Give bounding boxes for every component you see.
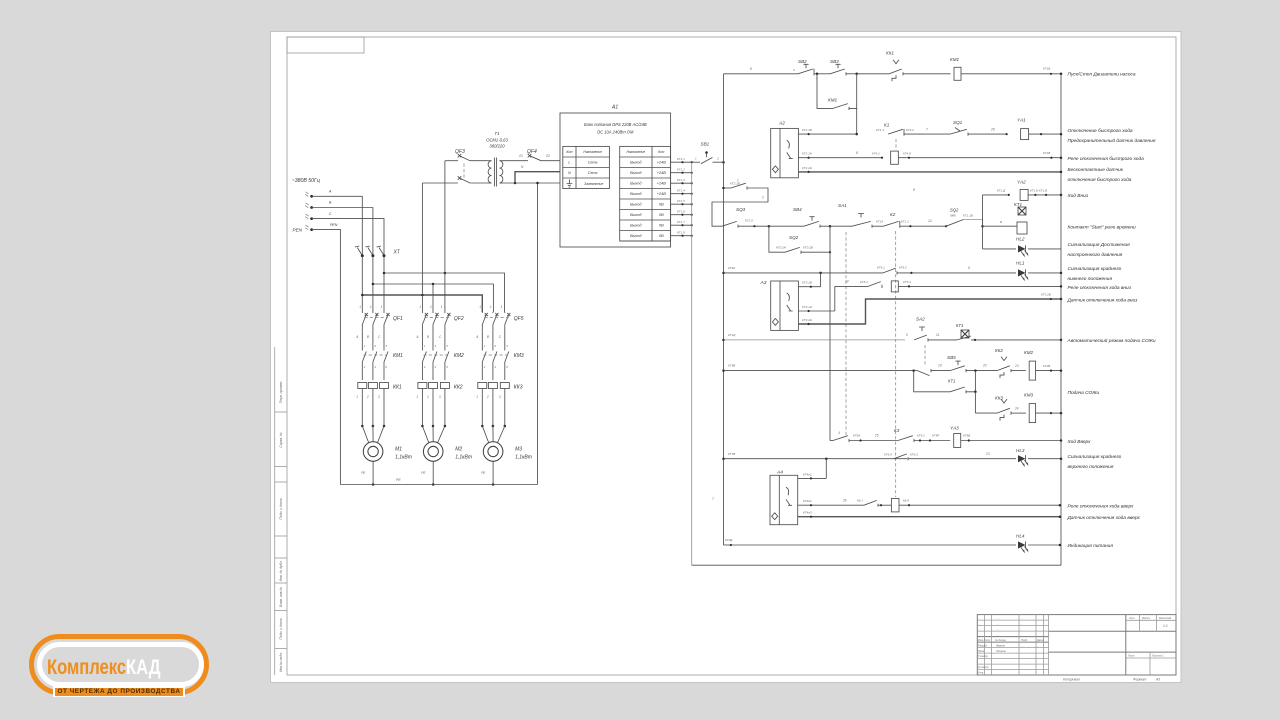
svg-text:YА2: YА2 (1017, 180, 1026, 185)
svg-text:QF1: QF1 (393, 316, 403, 322)
svg-text:1: 1 (490, 305, 492, 309)
svg-text:1: 1 (381, 305, 383, 309)
+24V bus left (723, 74, 725, 545)
svg-text:1,1кВт: 1,1кВт (455, 455, 472, 461)
svg-text:КТ1.3: КТ1.3 (677, 178, 685, 182)
svg-text:НL2: НL2 (1016, 237, 1025, 242)
svg-text:Подп. и дата: Подп. и дата (279, 498, 283, 519)
svg-text:КТ6.1: КТ6.1 (877, 266, 885, 270)
svg-text:Взам. инв.№: Взам. инв.№ (279, 587, 283, 607)
svg-text:КК1: КК1 (886, 51, 894, 56)
svg-text:QF4: QF4 (527, 149, 537, 155)
svg-text:А3: А3 (760, 280, 767, 286)
svg-text:К6.4: К6.4 (903, 499, 909, 503)
svg-text:Подача СОЖи: Подача СОЖи (1068, 390, 1100, 396)
svg-text:Разраб.: Разраб. (978, 643, 988, 647)
svg-text:А: А (415, 335, 418, 339)
svg-text:Н.контр.: Н.контр. (978, 665, 989, 669)
motor junction dots М3 (481, 425, 506, 443)
svg-text:20: 20 (982, 364, 987, 368)
svg-text:КТ5Р: КТ5Р (932, 434, 939, 438)
svg-text:КТ2.1В: КТ2.1В (802, 128, 812, 132)
svg-text:23: 23 (1014, 364, 1019, 368)
contactor contacts КМ3 (482, 344, 524, 380)
svg-text:КТ1.7: КТ1.7 (677, 220, 685, 224)
svg-text:1: 1 (430, 305, 432, 309)
svg-text:Сеть: Сеть (588, 171, 598, 175)
A1 input table (563, 146, 610, 188)
svg-text:КТ4а2: КТ4а2 (803, 499, 812, 503)
svg-text:SВ4: SВ4 (793, 207, 802, 212)
svg-text:КТ7В: КТ7В (728, 452, 735, 456)
wire labels КК1-motor (356, 395, 380, 399)
svg-text:Л1: Л1 (518, 154, 523, 158)
svg-text:КТ4а2: КТ4а2 (803, 472, 812, 476)
svg-text:КТ6.9: КТ6.9 (884, 453, 892, 457)
svg-text:верхнего положения: верхнего положения (1068, 465, 1114, 470)
wire riser to QF3 pole1 (444, 161, 446, 273)
wire rung power indication (724, 538, 1017, 546)
motor junction dots М1 (361, 425, 385, 443)
logo KompleksKAD inner white ring (37, 642, 204, 687)
wire feed hod vverh (829, 252, 831, 440)
limit switch SQ3 (722, 207, 770, 228)
sheet background (271, 32, 1182, 683)
svg-text:QF3: QF3 (455, 149, 465, 155)
svg-text:~380В 50Гц: ~380В 50Гц (292, 178, 320, 184)
vertical feed timer group (982, 195, 984, 249)
thermal contact KK2 (995, 348, 1026, 378)
svg-text:DC 10А 240Вт ОМ: DC 10А 240Вт ОМ (597, 130, 634, 135)
wire number labels above QF row (359, 305, 502, 309)
wire rung signal lower position (722, 266, 883, 274)
wire rung hod vniz (913, 188, 1010, 196)
svg-text:4: 4 (838, 431, 840, 435)
motor М1 PE wire (361, 461, 374, 485)
wire rung coolant (722, 364, 915, 372)
svg-text:КК2: КК2 (454, 385, 463, 391)
svg-text:КТ5.2: КТ5.2 (917, 434, 925, 438)
terminal block XT (355, 246, 401, 257)
svg-text:КМ1: КМ1 (393, 353, 403, 359)
svg-text:Утв.: Утв. (978, 670, 984, 674)
wire L1 input (312, 196, 363, 255)
svg-text:0В: 0В (659, 203, 664, 207)
title block left grid (977, 615, 1048, 675)
wire A4 middle output (712, 497, 864, 506)
svg-text:М2: М2 (455, 447, 462, 453)
svg-text:24: 24 (1014, 407, 1019, 411)
switch SB1 (692, 142, 725, 164)
label rung3 (1068, 156, 1145, 162)
wire A2 top output (798, 108, 858, 135)
contactor aux contact KM2a (914, 345, 950, 376)
contactor contacts КМ1 (362, 344, 403, 380)
svg-text:Подп. и дата: Подп. и дата (279, 618, 283, 639)
svg-text:КТ1.Е КТ1.В: КТ1.Е КТ1.В (1030, 189, 1047, 193)
svg-text:Выход: Выход (630, 213, 641, 217)
contactor coil KM3 (1024, 393, 1062, 423)
svg-text:2: 2 (761, 196, 764, 200)
svg-text:Заземление: Заземление (584, 182, 603, 186)
svg-text:КТ0.2В: КТ0.2В (803, 246, 813, 250)
thermal contact KK1 (857, 51, 951, 82)
label rung18 (1068, 543, 1114, 549)
svg-text:Датчик отключения хода вниз: Датчик отключения хода вниз (1067, 298, 1139, 304)
svg-text:380/220: 380/220 (489, 144, 505, 149)
svg-text:КТ1: КТ1 (1014, 202, 1023, 207)
svg-text:25: 25 (874, 434, 879, 438)
svg-text:1: 1 (737, 179, 739, 183)
indicator HL1 (1016, 261, 1062, 280)
svg-text:Ход Вверх: Ход Вверх (1067, 439, 1092, 445)
svg-text:НL4: НL4 (1016, 534, 1025, 539)
wire rung auto mode (722, 333, 905, 341)
title block revision marks (979, 617, 1023, 637)
svg-text:SQ2: SQ2 (789, 235, 799, 240)
sensor block A3 label (760, 280, 767, 286)
svg-text:3: 3 (378, 395, 380, 399)
motor М3 (483, 442, 532, 462)
svg-text:НL1: НL1 (1016, 261, 1025, 266)
svg-text:В: В (1000, 220, 1002, 224)
svg-text:7: 7 (926, 128, 928, 132)
svg-text:КТ1.2: КТ1.2 (677, 168, 685, 172)
logo ribbon (55, 688, 184, 696)
logo KompleksKAD outer ring (29, 634, 209, 695)
label rung10 (1067, 298, 1139, 304)
logo KompleksKAD text (47, 655, 161, 680)
wire riser to QF3 pole2 (421, 183, 423, 295)
svg-text:К3: К3 (894, 428, 900, 433)
sensor block A3 (771, 281, 799, 330)
input terminals L1 L2 L3 PEN (305, 192, 313, 231)
time relay coil KT1 (983, 202, 1028, 234)
label rung8 (1068, 265, 1122, 282)
svg-text:КТ1Д: КТ1Д (728, 333, 736, 337)
title block header texts (978, 638, 1044, 674)
svg-text:М3: М3 (515, 447, 522, 453)
svg-text:КТ4.2: КТ4.2 (906, 128, 914, 132)
svg-text:КТ1.8: КТ1.8 (677, 231, 685, 235)
wire labels QF5-КМ3 (475, 335, 502, 339)
svg-text:7: 7 (712, 497, 714, 501)
svg-text:М1: М1 (395, 447, 402, 453)
svg-text:1: 1 (501, 305, 503, 309)
svg-text:SВ1: SВ1 (701, 142, 710, 147)
wire labels QF2-КМ2 (415, 335, 442, 339)
label rung5 (1067, 193, 1089, 199)
svg-text:Листов 1: Листов 1 (1151, 654, 1164, 658)
svg-text:КТ6В: КТ6В (963, 434, 970, 438)
solenoid coil YA2 (1017, 180, 1062, 201)
button SB3 start (814, 59, 858, 75)
svg-text:Пуск/Стоп Двигатели насоса: Пуск/Стоп Двигатели насоса (1068, 72, 1136, 78)
title block footer texts (1063, 678, 1160, 682)
svg-text:1,1кВт: 1,1кВт (515, 455, 532, 461)
svg-text:Инв.№ подл.: Инв.№ подл. (279, 652, 283, 672)
svg-text:КТ9В: КТ9В (728, 364, 735, 368)
relay coil K1 (891, 151, 1063, 164)
svg-text:3: 3 (439, 395, 441, 399)
svg-text:2: 2 (423, 365, 426, 369)
svg-text:26: 26 (990, 128, 995, 132)
button SB4 (769, 207, 831, 228)
svg-text:26: 26 (842, 499, 847, 503)
svg-text:Лист: Лист (1127, 654, 1136, 658)
A1 output wires (671, 157, 693, 237)
svg-text:Кон: Кон (566, 150, 572, 154)
label rung17 (1067, 515, 1141, 521)
svg-text:Формат: Формат (1133, 678, 1147, 682)
svg-text:Выход: Выход (630, 171, 641, 175)
power supply A1 box (560, 113, 671, 247)
svg-text:2: 2 (483, 365, 486, 369)
limit switch SQ4 (946, 208, 984, 228)
circuit breaker QF4 (503, 149, 560, 161)
svg-text:КТ1В: КТ1В (1043, 67, 1050, 71)
motor М2 (423, 442, 472, 462)
wire A3 middle output (798, 286, 834, 312)
svg-text:Копировал: Копировал (1063, 678, 1080, 682)
svg-text:КК2: КК2 (995, 348, 1003, 353)
svg-text:YА1: YА1 (1017, 118, 1026, 123)
svg-text:КТ2.2Н: КТ2.2Н (802, 166, 813, 170)
label rung7 (1068, 242, 1131, 258)
svg-text:С: С (329, 212, 332, 216)
indicator HL2 (983, 237, 1062, 256)
svg-text:КК3: КК3 (995, 396, 1003, 401)
svg-text:Изм Лист: Изм Лист (978, 638, 991, 642)
svg-text:КМ1: КМ1 (950, 57, 960, 62)
svg-text:1: 1 (356, 395, 358, 399)
solenoid coil YA3 (950, 426, 1062, 448)
svg-text:КТ0.2Н: КТ0.2Н (776, 246, 787, 250)
svg-text:SQ1: SQ1 (953, 120, 963, 125)
svg-text:КТ3.1Н: КТ3.1Н (802, 305, 813, 309)
wire phase verticals below XT (362, 256, 384, 312)
svg-text:1: 1 (479, 305, 481, 309)
svg-text:Реле отключения хода вниз: Реле отключения хода вниз (1068, 285, 1132, 291)
svg-text:Реле отключения быстрого хода: Реле отключения быстрого хода (1068, 156, 1145, 162)
svg-text:1:1: 1:1 (1163, 624, 1168, 628)
left margin cell dividers (275, 412, 287, 649)
svg-text:YА3: YА3 (950, 426, 959, 431)
svg-text:Л2: Л2 (545, 154, 550, 158)
svg-text:КТ2В: КТ2В (1043, 364, 1050, 368)
svg-text:1,1кВт: 1,1кВт (395, 455, 412, 461)
timed contact KT1b (914, 371, 977, 394)
svg-text:Блок питания DPS 220В AC/24В: Блок питания DPS 220В AC/24В (584, 122, 647, 127)
supply label ~380V 50Hz (292, 178, 320, 184)
svg-text:19: 19 (938, 364, 942, 368)
0V rail bottom (692, 564, 1061, 566)
svg-text:Выход: Выход (630, 224, 641, 228)
svg-text:Сигнализация крайнего: Сигнализация крайнего (1068, 265, 1122, 272)
label rung9 (1068, 285, 1132, 291)
svg-text:КТ1В: КТ1В (1043, 151, 1050, 155)
logo ribbon background (53, 686, 185, 697)
circuit breaker QF1 (362, 312, 403, 348)
svg-text:Подп.: Подп. (1021, 638, 1028, 642)
svg-text:Выход: Выход (630, 161, 641, 165)
relay contact K3a (877, 266, 1016, 275)
svg-text:Т1: Т1 (495, 131, 500, 136)
thermal contact KK3 (995, 396, 1026, 421)
svg-text:КТ0Д: КТ0Д (725, 538, 733, 542)
svg-text:+24В: +24В (657, 171, 666, 175)
sensor block A4 (770, 475, 798, 524)
svg-text:...: ... (1021, 644, 1023, 647)
svg-text:2: 2 (716, 157, 719, 161)
sensor block A2 (771, 128, 799, 177)
svg-text:Индикация питания: Индикация питания (1068, 543, 1114, 549)
svg-text:1: 1 (359, 305, 361, 309)
svg-text:КТ1.5: КТ1.5 (677, 199, 685, 203)
svg-text:КТ1: КТ1 (956, 323, 963, 328)
svg-text:2: 2 (363, 365, 366, 369)
wire N from T1 to A1 (503, 165, 560, 184)
svg-text:ОСМ1-0,63: ОСМ1-0,63 (486, 138, 508, 143)
relay K2 link dashed (895, 231, 897, 497)
label rung4 (1068, 167, 1132, 183)
svg-text:К2: К2 (890, 212, 896, 217)
svg-text:люк: люк (949, 214, 956, 218)
button SB2 stop (793, 59, 818, 81)
svg-text:L: L (568, 161, 570, 165)
drawing frame border (287, 37, 1176, 675)
svg-text:Назначение: Назначение (626, 150, 645, 154)
svg-text:Петров: Петров (996, 649, 1006, 653)
bus L2 distribution (372, 283, 494, 312)
svg-text:нижнего положения: нижнего положения (1068, 277, 1113, 282)
A1 output table (620, 146, 671, 241)
selector switch SA2 (906, 317, 957, 342)
svg-text:Назначение: Назначение (583, 150, 602, 154)
wire A3 bottom output (798, 293, 1062, 326)
wire SQ1 branch from bus (722, 182, 740, 190)
svg-text:0В: 0В (659, 224, 664, 228)
relay contact K2 (876, 212, 947, 228)
wire A2 bottom output (798, 166, 1062, 173)
svg-text:PEN: PEN (293, 228, 303, 233)
svg-text:Перв. примен.: Перв. примен. (279, 381, 283, 404)
circuit breaker QF5 (482, 312, 523, 348)
circuit breaker QF2 (422, 312, 463, 348)
relay contact K3b (894, 428, 950, 442)
svg-text:PEN: PEN (330, 223, 338, 227)
motor М3 PE wire (481, 461, 494, 485)
svg-text:КТ2.1Н: КТ2.1Н (802, 152, 813, 156)
0V bus right (1060, 74, 1062, 565)
svg-text:0В: 0В (659, 234, 664, 238)
svg-text:А1: А1 (611, 105, 618, 111)
svg-text:Кон: Кон (658, 150, 664, 154)
svg-text:РЕ: РЕ (396, 478, 401, 482)
svg-text:1: 1 (370, 305, 372, 309)
svg-text:А4: А4 (776, 470, 783, 476)
title block right cells (1126, 615, 1176, 675)
svg-text:Лит.: Лит. (1128, 616, 1135, 620)
svg-text:К6.1: К6.1 (857, 499, 863, 503)
svg-text:КТ6.3: КТ6.3 (910, 453, 918, 457)
svg-text:. ...: . ... (996, 634, 1000, 637)
svg-text:КТ1: КТ1 (948, 379, 955, 384)
svg-text:+24В: +24В (657, 161, 666, 165)
svg-text:8: 8 (750, 67, 752, 71)
svg-text:. ...: . ... (996, 617, 1000, 620)
motor М2 PE wire (421, 461, 434, 485)
title block outer (977, 615, 1176, 675)
svg-text:Выход: Выход (630, 203, 641, 207)
svg-text:1: 1 (416, 395, 418, 399)
svg-text:КТ2.0: КТ2.0 (745, 219, 753, 223)
wire L3 input (312, 219, 384, 256)
label rung1 (1068, 72, 1136, 78)
selector SA1 link dashed (845, 232, 847, 436)
svg-text:КТ1.1: КТ1.1 (677, 157, 685, 161)
svg-text:Справ. №: Справ. № (279, 432, 283, 448)
label PEN (293, 228, 303, 233)
svg-text:Пров.: Пров. (978, 649, 985, 653)
wire labels QF1-КМ1 (355, 335, 381, 339)
svg-text:КТ1А: КТ1А (876, 220, 883, 224)
svg-text:Т.контр.: Т.контр. (978, 654, 989, 658)
wire A4 bottom output (798, 511, 1061, 518)
svg-text:Бесконтактные датчик: Бесконтактные датчик (1068, 167, 1124, 173)
svg-text:...: ... (1037, 644, 1039, 647)
contact KM1 self hold (817, 74, 857, 110)
left margin rotated captions (279, 381, 283, 672)
title block middle divider (1049, 615, 1176, 675)
svg-text:SА1: SА1 (838, 203, 847, 208)
wire labels КК2-motor (416, 395, 441, 399)
relay coil K2 (857, 499, 1061, 512)
bus L3 distribution (383, 272, 505, 312)
svg-text:Ход Вниз: Ход Вниз (1067, 193, 1089, 199)
svg-text:Отключение быстрого хода: Отключение быстрого хода (1068, 128, 1133, 134)
svg-text:N: N (568, 171, 571, 175)
timed contact KT1a (956, 323, 1062, 341)
svg-text:КТ1.1В: КТ1.1В (963, 214, 973, 218)
solenoid coil YA1 (1017, 118, 1062, 140)
indicator HL3 (1016, 448, 1062, 466)
svg-text:КТ1.4: КТ1.4 (876, 128, 884, 132)
thermal relay КК1 (358, 383, 402, 427)
limit switch SQ1 (950, 120, 1008, 136)
label rung6 (1068, 225, 1137, 231)
svg-text:КТ6А: КТ6А (728, 266, 735, 270)
svg-text:0: 0 (906, 333, 908, 337)
thermal relay КК2 (418, 383, 463, 427)
svg-text:КМ2: КМ2 (1024, 350, 1034, 355)
sensor block A2 label (778, 121, 785, 127)
svg-text:Автоматический режим подачи СО: Автоматический режим подачи СОЖи (1067, 337, 1156, 344)
svg-text:ХТ: ХТ (393, 250, 401, 256)
A1 output bus vertical (691, 162, 693, 565)
svg-text:SВ3: SВ3 (830, 59, 839, 64)
svg-text:2: 2 (486, 395, 489, 399)
PE bus (340, 478, 537, 485)
label rung14 (1067, 439, 1092, 445)
svg-text:№ докум.: № докум. (995, 638, 1007, 642)
svg-text:Реле отключения хода вверх: Реле отключения хода вверх (1068, 504, 1134, 510)
left margin column line (274, 347, 276, 675)
svg-text:КТ4.1: КТ4.1 (872, 152, 880, 156)
wire labels КК3-motor (476, 395, 501, 399)
label rung15 (1068, 453, 1122, 470)
svg-text:QF5: QF5 (514, 316, 524, 322)
